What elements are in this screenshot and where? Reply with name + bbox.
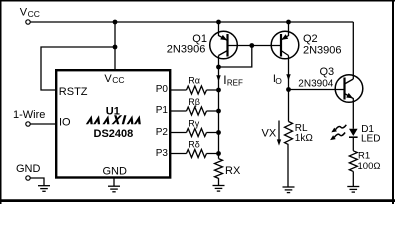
node rail-Q1 <box>216 20 221 25</box>
resistor R1 <box>349 151 357 172</box>
label VCC supply <box>20 6 40 19</box>
resistor Rgamma <box>187 129 207 137</box>
node Rdelta <box>216 151 221 156</box>
svg-text:2N3906: 2N3906 <box>167 44 206 56</box>
LED emission arrows <box>330 125 346 140</box>
wire R1 to ground <box>352 171 354 186</box>
svg-text:P3: P3 <box>156 148 169 159</box>
svg-text:RX: RX <box>225 165 241 177</box>
svg-text:V: V <box>104 73 112 85</box>
ground (RL) <box>283 187 295 193</box>
wire Q2 collector drop to RL <box>288 56 290 122</box>
svg-text:2N3904: 2N3904 <box>298 78 333 89</box>
wire P1 stub <box>170 110 219 112</box>
svg-text:U1: U1 <box>106 105 120 117</box>
svg-text:1kΩ: 1kΩ <box>295 133 314 144</box>
svg-text:VX: VX <box>262 128 277 140</box>
wire Q1 diode connection <box>219 46 252 68</box>
node Q3 base tap <box>286 87 291 92</box>
node rail-VCC pin <box>113 20 118 25</box>
wire P3 stub <box>170 153 219 155</box>
svg-text:REF: REF <box>227 79 243 88</box>
wire P2 stub <box>170 132 219 134</box>
resistor Rdelta <box>187 150 207 158</box>
resistor Rbeta <box>187 107 207 115</box>
arrow VX <box>277 121 281 146</box>
svg-text:V: V <box>20 6 28 18</box>
wire P0 stub <box>170 89 219 91</box>
svg-text:P0: P0 <box>156 84 169 95</box>
svg-text:100Ω: 100Ω <box>358 161 381 172</box>
pin VCC <box>104 73 124 85</box>
node Q1 collector <box>216 65 221 70</box>
svg-text:DS2408: DS2408 <box>94 128 134 140</box>
svg-text:IO: IO <box>59 116 71 128</box>
svg-text:1-Wire: 1-Wire <box>13 109 45 121</box>
node Rgamma <box>216 130 221 135</box>
transistor Q2 <box>271 22 299 59</box>
wire RL to ground <box>287 145 289 187</box>
svg-text:Rγ: Rγ <box>188 118 199 128</box>
resistor Ralpha <box>187 86 207 94</box>
wire GND terminal stub <box>30 178 44 186</box>
ground (left GND terminal) <box>38 186 50 192</box>
wire 1-Wire to IO pin <box>30 123 56 125</box>
wire U1 GND pin stem <box>113 179 115 187</box>
svg-text:GND: GND <box>16 163 41 175</box>
terminal GND <box>26 176 30 180</box>
resistor RL <box>285 122 293 145</box>
ground (R1) <box>347 187 359 193</box>
svg-text:P2: P2 <box>156 127 169 138</box>
resistor RX <box>215 159 223 179</box>
node RSTZ tap <box>113 45 118 50</box>
wire Q3 base <box>289 89 345 91</box>
wire LED to R1 <box>352 137 354 151</box>
terminal 1-Wire <box>26 122 30 126</box>
U1 DS2408 body <box>56 70 170 177</box>
svg-text:RSTZ: RSTZ <box>59 86 88 98</box>
label IREF <box>223 73 243 88</box>
wire VCC top rail <box>30 21 353 23</box>
svg-text:P1: P1 <box>156 105 169 116</box>
svg-text:Rβ: Rβ <box>188 97 200 107</box>
svg-text:Rδ: Rδ <box>188 139 200 149</box>
svg-text:Q3: Q3 <box>320 66 335 78</box>
transistor Q1 <box>210 22 238 59</box>
svg-text:R1: R1 <box>358 150 370 161</box>
ground (U1 GND pin) <box>108 186 120 192</box>
wire Q1 collector / resistor rail <box>218 56 220 159</box>
svg-text:Rα: Rα <box>188 75 200 85</box>
wire Q1-Q2 base rail <box>228 45 282 47</box>
node base rail <box>249 43 254 48</box>
wire RX to ground <box>218 178 220 185</box>
terminal VCC <box>26 20 30 24</box>
svg-text:O: O <box>275 76 282 86</box>
node rail-Q2 <box>286 20 291 25</box>
svg-text:GND: GND <box>103 166 128 178</box>
wire RSTZ tap <box>41 47 115 90</box>
LED D1 <box>349 129 358 137</box>
arrow IREF current <box>216 75 220 81</box>
svg-text:CC: CC <box>28 9 40 19</box>
svg-text:Q2: Q2 <box>303 33 318 45</box>
node Ralpha <box>216 88 221 93</box>
ground (RX) <box>213 186 225 192</box>
transistor Q3 <box>335 75 363 129</box>
svg-text:LED: LED <box>361 134 380 145</box>
wire Q3 collector drop from rail <box>352 22 354 79</box>
label IO current <box>273 73 282 86</box>
arrow IO current <box>286 74 290 80</box>
node Rbeta <box>216 109 221 114</box>
svg-text:2N3906: 2N3906 <box>303 45 342 57</box>
wire VCC pin drop to U1 <box>114 22 116 70</box>
svg-text:CC: CC <box>112 75 124 85</box>
logo MAXIM <box>86 115 143 124</box>
